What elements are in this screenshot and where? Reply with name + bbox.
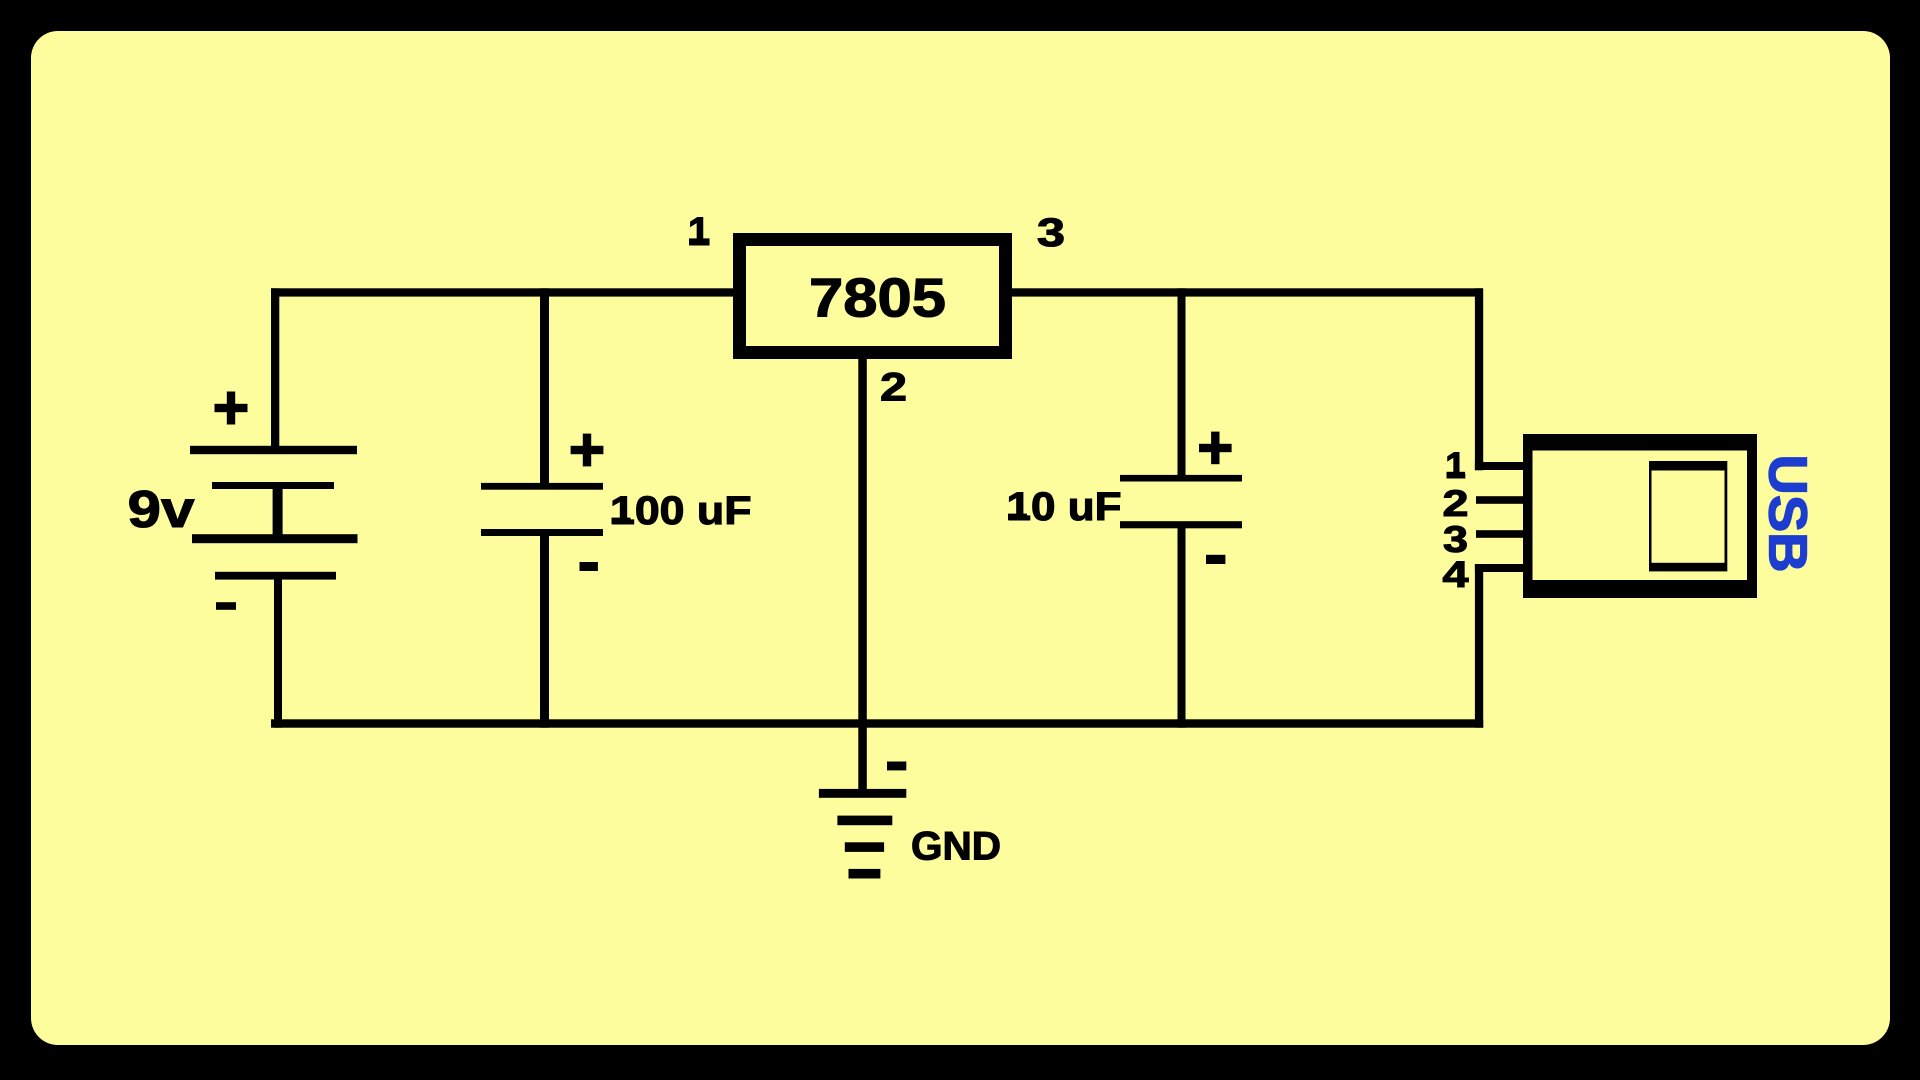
ground bar 4 [849,869,881,879]
svg-text:GND: GND [911,825,1001,869]
svg-text:1: 1 [688,210,710,254]
svg-text:2: 2 [1443,483,1469,524]
ground bar 2 [837,816,892,826]
wire: capacitor C2 bottom lead [1178,523,1186,728]
C1 top plate [481,483,603,490]
ground minus sign [887,762,906,771]
battery inter-cell connector [273,488,283,538]
svg-text:USB: USB [1758,455,1818,573]
svg-text:10 uF: 10 uF [1007,485,1122,529]
battery plate short bottom [215,572,336,580]
battery plus sign [215,404,248,412]
svg-text:9v: 9v [128,481,195,539]
svg-text:3: 3 [1037,211,1065,255]
svg-text:4: 4 [1443,554,1470,595]
wire: USB pin 1 stub [1475,462,1524,470]
wire: 7805 pin 2 to ground symbol (vertical) [858,357,867,795]
C1 plus sign [571,446,604,454]
battery plate long top [190,446,357,454]
battery BT1 9v [128,392,358,610]
wire: USB pin 2 stub [1476,496,1524,504]
7805 box [740,240,1006,353]
wire: USB pin 4 branch (vertical) [1475,564,1483,728]
svg-text:2: 2 [880,366,907,410]
capacitor C2 10uF [1007,432,1243,564]
battery plate short upper [212,482,334,489]
svg-text:100 uF: 100 uF [610,489,752,533]
battery plate long lower [192,534,358,543]
battery minus sign [216,602,236,610]
C2 minus sign [1206,555,1225,564]
wire: capacitor C1 top lead [540,288,549,487]
ground bar 1 [819,789,906,798]
C2 plus sign [1199,444,1232,452]
wire: top bus from 7805 pin 3 to USB branch [1011,288,1483,296]
USB shell inner [1533,451,1748,581]
wire: battery negative lead (vertical) [274,575,282,728]
wire: battery positive lead (vertical) [271,288,279,450]
wire: bottom ground bus [271,719,1483,727]
C2 bottom plate [1120,521,1242,528]
svg-text:1: 1 [1445,445,1466,486]
wire: USB pin 1 branch (vertical) [1475,288,1483,470]
USB shell outer [1523,434,1757,598]
wire: capacitor C1 bottom lead [540,531,549,728]
ground [819,762,1001,879]
USB connector J1 [1443,434,1818,598]
capacitor C1 100uF [481,434,752,571]
C1 bottom plate [481,529,603,536]
regulator U1 7805 [688,210,1065,410]
wire: USB pin 3 stub [1476,530,1524,538]
C2 top plate [1120,475,1242,482]
wire: top bus from battery to 7805 pin 1 [271,288,735,296]
USB tongue outer [1649,461,1727,571]
USB tongue inner [1652,471,1725,563]
svg-text:7805: 7805 [809,267,946,329]
wire: capacitor C2 top lead [1178,288,1186,480]
wire: USB pin 4 stub [1475,564,1524,572]
ground bar 3 [845,842,884,852]
C1 minus sign [580,562,598,571]
